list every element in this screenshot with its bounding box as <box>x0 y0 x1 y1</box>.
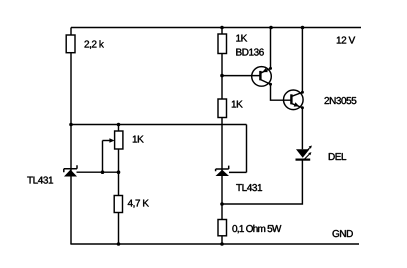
junction: BD136 emitter / vertical wire <box>269 67 272 70</box>
label: 2,2 k <box>85 40 104 49</box>
junction: BD136 base / middle rail <box>220 74 224 78</box>
label: 12 V <box>337 37 355 44</box>
shunt regulator U1 TL431 (left) cathode bar <box>64 165 77 172</box>
wire: 2N3055 collector to 12V rail x=302.4 <box>291 28 302 97</box>
label: DEL <box>329 153 346 160</box>
resistor 1K (top, BD136 emitter bias) <box>218 34 227 54</box>
wire: TL431 (left) ref horizontal y=172.2 <box>77 171 119 173</box>
junction: bottom rail / 0,1 ohm <box>220 242 224 246</box>
wire: potentiometer / 4.7K vertical x=118.5 <box>118 125 120 245</box>
wire: 2N3055 emitter down to LED <box>291 103 302 149</box>
transistor Q1 BD136 emitter arrowhead (PNP) <box>262 68 268 72</box>
LED D1 emission arrow 1 <box>305 147 311 153</box>
junction: pot bottom / left ref wire <box>117 170 121 174</box>
LED D1 emission arrow 2 <box>304 154 310 160</box>
shunt regulator U2 TL431 (middle) anode triangle <box>216 170 230 176</box>
label: TL431 (middle) <box>236 184 262 191</box>
shunt regulator U2 TL431 (middle) cathode bar <box>216 166 229 172</box>
junction: top rail / R 1K <box>220 26 224 30</box>
shunt regulator U1 TL431 (left) anode triangle <box>64 170 77 177</box>
wire: wiper vertical x=102.5 <box>102 141 104 173</box>
wire: BD136 collector down and to 2N3055 base <box>260 80 291 101</box>
wire: TL431 (middle) ref horizontal <box>229 171 247 173</box>
junction: 2N3055 emitter / vertical wire <box>301 106 304 109</box>
resistor 4,7K <box>114 196 122 213</box>
wire: vertical x=246.5 down to TL431 ref loop <box>246 125 248 173</box>
transistor Q2 2N3055 circle <box>284 90 304 110</box>
junction: left rail / bus <box>69 123 73 127</box>
junction: bus / pot top <box>117 123 121 127</box>
LED D1 cathode bar <box>296 159 311 161</box>
wire: LED cathode down and left to shunt node <box>222 160 302 204</box>
LED D1 (DEL) triangle <box>296 149 310 157</box>
wire: horizontal bus y=124.5 from left rail to x=246.5 <box>71 124 247 126</box>
junction: BD136 collector / vertical wire <box>269 83 272 86</box>
junction: shunt node (LED return / 0.1 ohm) <box>220 202 224 206</box>
wire: left vertical rail x=71 <box>70 28 72 245</box>
junction: top rail / BD136 emitter <box>269 26 273 30</box>
wire: BD136 emitter to 12V rail x=270.5 <box>260 28 270 74</box>
resistor 0,1 Ohm 5W <box>218 220 227 236</box>
wire: wiper horizontal into pot <box>103 140 111 142</box>
potentiometer 1K body <box>115 131 123 149</box>
label: 1K (top) <box>236 35 247 42</box>
label: TL431 (left) <box>27 177 53 184</box>
junction: wiper / left ref wire <box>101 170 105 174</box>
label: 0,1 Ohm 5W <box>232 225 281 234</box>
transistor Q2 2N3055 emitter arrowhead (NPN) <box>294 102 300 106</box>
wire: 12V top rail <box>71 27 361 29</box>
resistor 2,2k <box>66 35 75 53</box>
label: 4,7 K <box>128 200 149 208</box>
label: 2N3055 <box>325 97 357 104</box>
transistor Q2 2N3055 base bar <box>290 94 292 104</box>
transistor Q1 BD136 base bar <box>259 71 261 80</box>
label: 1K (pot) <box>133 136 144 143</box>
junction: top rail / 2N3055 collector <box>301 26 305 30</box>
wire: middle vertical rail x=222 <box>221 28 223 245</box>
label: 1K (middle) <box>232 101 243 108</box>
potentiometer wiper arrowhead <box>109 138 114 143</box>
label: GND <box>333 230 353 237</box>
resistor 1K (middle) <box>218 99 227 118</box>
label: BD136 <box>236 49 263 56</box>
junction: 2N3055 collector / vertical wire <box>301 91 304 94</box>
junction: bottom rail / 4,7K <box>117 242 121 246</box>
transistor Q1 BD136 circle <box>252 67 272 87</box>
wire: BD136 base wire y=75.6 <box>222 75 260 77</box>
wire: GND bottom rail <box>70 243 359 245</box>
